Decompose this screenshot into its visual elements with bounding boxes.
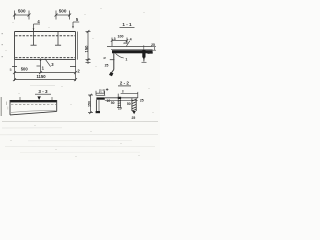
- ghost scan line above 3-3 title: [30, 84, 55, 86]
- plan upper dashed row: [15, 35, 75, 37]
- svg-text:25: 25: [140, 98, 144, 102]
- svg-text:500: 500: [59, 9, 67, 14]
- 2-2 corner plate (filled): [96, 97, 104, 99]
- dimension 500 top-right: [55, 11, 72, 20]
- 1-1 left web: [113, 53, 115, 69]
- 2-2 hatched stud: [132, 98, 136, 111]
- svg-text:1 - 1: 1 - 1: [122, 22, 132, 27]
- svg-text:25: 25: [151, 43, 155, 47]
- 1-1 foot blob: [109, 72, 113, 76]
- svg-text:3: 3: [114, 37, 116, 41]
- 1-1 stud dim tick: [143, 45, 145, 50]
- dimension line 500 (below plan, first row): [13, 71, 77, 74]
- 2-2 bolt thin: [118, 97, 121, 99]
- 1-1 web foot bend: [111, 70, 114, 74]
- 3-3 top tick left: [19, 97, 21, 100]
- 3-3 body outline: [10, 100, 57, 115]
- svg-text:150: 150: [87, 101, 91, 107]
- left end tick of lower dims: [12, 66, 17, 68]
- leader 2 right end: [70, 66, 76, 68]
- svg-text:1: 1: [125, 57, 127, 61]
- vertical dimension 150 right of plan: [86, 30, 91, 64]
- svg-text:2 - 2: 2 - 2: [120, 81, 130, 86]
- 2-2 top dimension: [96, 91, 105, 96]
- 3-3 inner seam line: [11, 110, 56, 112]
- stud mark right (cross): [55, 32, 61, 46]
- 1-1 second line: [111, 48, 153, 50]
- 3-3 top plate (thick bar): [10, 100, 57, 102]
- plan lower dashed row: [15, 57, 75, 59]
- dimension 100 (1-1): [111, 38, 128, 47]
- 2-2 weld mark: [106, 88, 109, 91]
- 2-2 vertical leg double lines: [95, 100, 97, 112]
- 1-1 web dash: [110, 59, 115, 61]
- 1-1 leader 4 diagonal: [126, 41, 129, 46]
- svg-text:150: 150: [84, 45, 89, 53]
- 2-2 right end tick: [137, 92, 139, 98]
- svg-text:100: 100: [118, 35, 124, 39]
- svg-text:25: 25: [132, 116, 136, 120]
- svg-text:1150: 1150: [36, 74, 46, 79]
- svg-text:110: 110: [147, 51, 153, 55]
- 2-2 left vertical dimension 150: [88, 94, 93, 114]
- 3-3 inner dashed row: [11, 103, 56, 105]
- plan outline rectangle: [15, 32, 76, 60]
- 1-1 top surface line: [107, 46, 153, 48]
- svg-text:⌀8: ⌀8: [123, 41, 127, 45]
- svg-text:25: 25: [105, 63, 109, 67]
- leader 1 (to lower dashed row): [37, 59, 41, 73]
- 2-2 leg bottom cap: [96, 111, 100, 113]
- 1-1 stud bottom tick: [142, 61, 147, 63]
- faint marks left of 3-3 body: [6, 102, 8, 106]
- 2-2 bolt dim line: [121, 93, 138, 95]
- svg-text:500: 500: [21, 66, 29, 71]
- leader 4 (to left stud): [34, 24, 41, 30]
- left scan frame mark: [0, 97, 2, 116]
- 1-1 leader 1 curved: [116, 54, 124, 59]
- svg-text:8: 8: [122, 89, 124, 93]
- plan right edge double line: [76, 32, 78, 60]
- 3-3 weld triangle mark: [37, 96, 41, 100]
- 1-1 stud (filled): [142, 50, 145, 58]
- 1-1 stud shank: [143, 58, 145, 62]
- svg-text:50: 50: [127, 102, 131, 106]
- scan noise streaks bottom: [0, 121, 158, 152]
- svg-text:⌀8: ⌀8: [102, 89, 106, 93]
- dimension 500 top-left: [13, 11, 31, 20]
- svg-text:50: 50: [111, 101, 115, 105]
- svg-text:5: 5: [10, 68, 12, 72]
- 2-2 top thin line: [96, 94, 105, 96]
- 2-2 flange double lines: [105, 97, 138, 99]
- leader 5 (top-right corner): [73, 22, 79, 28]
- extension lines below plan: [15, 60, 76, 81]
- dimension line 1150 (below plan, second row): [13, 78, 77, 81]
- 1-1 flange plate (filled): [112, 50, 153, 53]
- leader 3 (diagonal): [45, 59, 51, 67]
- svg-text:3 - 3: 3 - 3: [38, 89, 48, 94]
- 3-3 top tick right: [51, 97, 53, 100]
- svg-text:500: 500: [18, 9, 26, 14]
- scan speckle noise: [5, 8, 154, 157]
- 1-1 dim 25 right: [153, 47, 156, 51]
- stud mark left (cross): [31, 29, 37, 45]
